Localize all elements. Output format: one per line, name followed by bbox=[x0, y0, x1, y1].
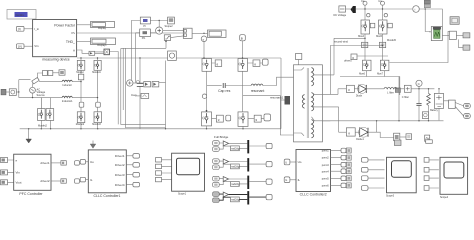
feedback wire vertical 2 bbox=[125, 49, 165, 128]
from tag T3b bbox=[226, 115, 231, 121]
wire CLLC1 a bbox=[86, 161, 89, 163]
svg-text:Uo: Uo bbox=[90, 160, 94, 164]
mosfet S4 (sec leg B low) bbox=[380, 60, 389, 70]
wire S3 S4 to bottom bus bbox=[354, 56, 388, 77]
tag CLLC1 o2 bbox=[133, 163, 140, 168]
goto tag CLLC2 out2 bbox=[341, 155, 346, 160]
svg-text:U: U bbox=[285, 160, 287, 164]
svg-text:Driver1: Driver1 bbox=[115, 154, 125, 158]
gate driver block row1 bbox=[346, 85, 354, 92]
gain row2 bbox=[223, 159, 228, 164]
CLLC Controller2 block bbox=[296, 149, 331, 197]
svg-text:driver2: driver2 bbox=[40, 179, 50, 183]
wire CLLC2 out2 bbox=[331, 157, 342, 159]
wire E to display F bbox=[192, 32, 207, 34]
voltage measurement H bbox=[201, 36, 207, 42]
svg-text:Power Factor: Power Factor bbox=[54, 23, 76, 27]
block below cap bbox=[422, 112, 428, 119]
meas block row2 b bbox=[406, 134, 412, 140]
secondary vertical bus A bbox=[333, 38, 335, 75]
mux bar row2 bbox=[247, 158, 249, 171]
breaker block bbox=[32, 77, 39, 83]
meas block right bbox=[449, 100, 456, 108]
load resistor RL bbox=[427, 89, 431, 121]
svg-text:[V]: [V] bbox=[18, 45, 22, 49]
goto block top bbox=[59, 70, 65, 75]
wire T3 bbox=[207, 119, 217, 129]
mini dark block top right bbox=[424, 0, 430, 7]
wire right leg tap to transformer bottom bbox=[243, 96, 294, 135]
wire battery to meas block bbox=[444, 101, 449, 103]
wire gate2 to diode2 bbox=[355, 131, 360, 133]
wire I_in to measuring device bbox=[24, 28, 33, 30]
wire bus to Q1 bbox=[80, 58, 82, 74]
right vertical wire bbox=[399, 77, 401, 96]
goto tag row2 bbox=[266, 162, 272, 167]
feedback wire to block A bbox=[131, 21, 140, 83]
wire row2 left bbox=[339, 131, 347, 133]
mux bar row4 bbox=[247, 191, 249, 204]
svg-text:pwm2: pwm2 bbox=[322, 156, 329, 160]
diode D2 bbox=[359, 127, 369, 137]
gate driver block row2 bbox=[346, 128, 355, 136]
tag PFC out2 bbox=[75, 179, 80, 183]
wire block to measure branch bbox=[16, 91, 19, 93]
input tag CLLC1 a bbox=[80, 160, 85, 165]
svg-text:Diode: Diode bbox=[356, 95, 363, 98]
from tag row2a bbox=[213, 159, 220, 164]
wire CLLC1 b bbox=[86, 179, 89, 181]
wire row1 bbox=[338, 88, 346, 90]
inductor L2 bbox=[62, 96, 73, 103]
svg-text:second wind: second wind bbox=[334, 40, 349, 43]
from tag Vin bbox=[17, 44, 25, 49]
battery block bbox=[434, 93, 443, 108]
wire row3 to mux bbox=[229, 179, 248, 184]
wire CLLC2 out4 bbox=[331, 170, 342, 172]
svg-text:CLLC Controller2: CLLC Controller2 bbox=[300, 192, 327, 196]
tag CLLC1 o1 bbox=[133, 154, 140, 159]
svg-text:C filter: C filter bbox=[402, 96, 409, 99]
goto tag CLLC2 out6 bbox=[341, 183, 346, 188]
from tag row1b bbox=[213, 147, 220, 152]
transformer secondary wires bbox=[322, 75, 338, 121]
wire CLLC2 out3 bbox=[331, 164, 342, 166]
gate block T1 bbox=[215, 60, 222, 67]
wire legA top bbox=[364, 5, 366, 20]
wire Q6 to bus bbox=[97, 123, 99, 129]
gain row4 bbox=[223, 192, 228, 197]
feedback wire to block B bbox=[136, 33, 140, 83]
mosfet S2 (sec leg B high) bbox=[379, 20, 388, 34]
wire pwm to block bbox=[442, 34, 449, 36]
mosfet Q1 (fast leg high A) bbox=[77, 60, 85, 70]
svg-text:Vout: Vout bbox=[16, 181, 22, 185]
tag CLLC1 o4 bbox=[133, 182, 140, 187]
scope1 bbox=[387, 157, 417, 193]
svg-text:IL: IL bbox=[90, 178, 93, 182]
from tag row4a bbox=[213, 192, 220, 197]
wire CLLC1 o1 bbox=[126, 155, 133, 157]
wire gate to diode bbox=[354, 88, 358, 90]
wire A output bbox=[77, 50, 89, 53]
wire source top to breaker bbox=[32, 83, 34, 87]
wire diode to inductor bbox=[367, 88, 384, 90]
wires to PFC controller bbox=[8, 160, 14, 182]
from tag in3 PFC bbox=[1, 180, 8, 185]
current tag on left leg bbox=[202, 94, 206, 98]
svg-text:Uo: Uo bbox=[298, 160, 302, 164]
wire CLLC2 out5 bbox=[331, 177, 342, 179]
wire mux out row3 bbox=[249, 181, 266, 183]
gate block S3 bbox=[351, 54, 357, 60]
ground under bus G2 bbox=[90, 141, 96, 149]
svg-text:Mos6: Mos6 bbox=[359, 73, 366, 76]
goto tag row4 bbox=[266, 195, 272, 200]
gain row3 bbox=[223, 177, 228, 182]
svg-text:B: B bbox=[241, 36, 243, 40]
terminator block out5 bbox=[346, 176, 351, 181]
wire mux out row1 bbox=[249, 145, 266, 147]
wire CLLC2 out6 bbox=[331, 184, 342, 186]
wire A1 to A2 bbox=[95, 52, 104, 53]
goto block PFC out1 bbox=[61, 161, 66, 165]
mid circles leg A bbox=[367, 14, 370, 17]
product block A2 bbox=[104, 49, 109, 55]
right dc bus vertical bbox=[280, 58, 282, 129]
gate block T4 bbox=[254, 115, 261, 122]
wire B to C bbox=[150, 32, 155, 34]
wire to bus tee bbox=[346, 8, 353, 10]
tag PFC out1 bbox=[75, 161, 80, 165]
mosfet Q3 (slow leg low A) bbox=[38, 109, 46, 121]
wire Y to tag1 bbox=[455, 103, 463, 106]
from tag row3a bbox=[213, 176, 220, 181]
goto tag row1 bbox=[266, 143, 272, 148]
from tag driver legA bbox=[362, 42, 368, 47]
svg-text:Scope2: Scope2 bbox=[164, 25, 173, 28]
diode D1 bbox=[357, 84, 366, 93]
svg-text:Im: Im bbox=[361, 0, 365, 3]
from tag in1 PFC bbox=[1, 158, 8, 163]
transformer TX1 bbox=[294, 65, 323, 142]
svg-text:rad2dg: rad2dg bbox=[231, 182, 240, 186]
goto tag CLLC2 out3 bbox=[341, 162, 346, 167]
svg-text:rad2dg: rad2dg bbox=[231, 198, 240, 202]
wire ground stub bbox=[28, 129, 30, 139]
wire to minis bbox=[456, 34, 463, 36]
svg-text:Cap res: Cap res bbox=[218, 89, 231, 93]
wire mux out row4 bbox=[249, 196, 266, 198]
wire bottom line bbox=[33, 97, 63, 99]
from tag row4b bbox=[213, 198, 220, 203]
measure block pair a bbox=[43, 71, 48, 76]
goto tag row3 bbox=[266, 179, 272, 184]
icon block bottom bbox=[425, 135, 430, 141]
top rail bbox=[411, 88, 434, 90]
wire diode2 right bbox=[369, 132, 394, 137]
terminator block out4 bbox=[346, 169, 351, 174]
wire THD to display2 bbox=[77, 40, 91, 42]
powergui block bbox=[7, 10, 36, 20]
inductor L1 bbox=[62, 80, 72, 87]
svg-text:Mosfet1: Mosfet1 bbox=[92, 71, 101, 74]
wire Q1 to mid bbox=[80, 80, 82, 112]
svg-text:pwm5: pwm5 bbox=[322, 176, 329, 180]
svg-text:I_in: I_in bbox=[34, 27, 39, 31]
out tag1 bbox=[464, 103, 471, 108]
wire row2 blocks bbox=[400, 136, 406, 138]
saturation block G bbox=[164, 35, 170, 41]
from tag I_in bbox=[17, 26, 25, 31]
wire Uo to CLLC2 bbox=[290, 161, 296, 163]
convert block row4 bbox=[231, 197, 240, 202]
mosfet S3 (sec leg A low) bbox=[363, 60, 372, 70]
svg-text:Mos4: Mos4 bbox=[358, 35, 365, 38]
wire inductor to fast leg mid bbox=[72, 81, 81, 83]
meas block row2 a bbox=[394, 133, 400, 141]
from tag IL bbox=[284, 177, 290, 183]
svg-text:Vin: Vin bbox=[34, 44, 39, 48]
wire meas to transformer bbox=[298, 60, 300, 65]
dc source block top bbox=[339, 6, 346, 12]
wire bus to Q2 bbox=[97, 58, 99, 112]
svg-text:THD_: THD_ bbox=[66, 40, 75, 44]
svg-text:Inductor: Inductor bbox=[63, 83, 73, 87]
mini gray block above scope1 bbox=[394, 140, 401, 146]
scope A input tags bbox=[156, 158, 162, 162]
wire sense to vertical bbox=[159, 82, 166, 84]
wire vm stub bbox=[418, 86, 420, 88]
wire row2 to mux bbox=[229, 162, 248, 167]
svg-text:Display1: Display1 bbox=[97, 44, 107, 47]
wire T2 leg bbox=[243, 58, 263, 112]
goto tag T2b bbox=[262, 59, 268, 65]
feedback sense blocks on wire bbox=[127, 80, 133, 86]
wire pair to goto bbox=[53, 72, 59, 74]
AC voltage source V1 bbox=[30, 87, 46, 97]
secondary top bus bbox=[356, 8, 412, 10]
wires scope2 bbox=[429, 160, 439, 188]
output capacitor Co bbox=[416, 89, 421, 121]
svg-text:Mos7: Mos7 bbox=[377, 73, 384, 76]
current measure label leg B bbox=[379, 0, 385, 5]
gate tag Q5 bbox=[79, 102, 84, 107]
terminator block out1 bbox=[346, 148, 351, 153]
svg-text:IL: IL bbox=[298, 178, 301, 182]
svg-text:pwm3: pwm3 bbox=[322, 163, 329, 167]
mini white block above scope2 bbox=[426, 140, 433, 144]
wire legA mid bbox=[334, 34, 365, 60]
wire junction dots bbox=[18, 8, 440, 129]
wire row1 tag-gain bbox=[219, 143, 230, 149]
svg-text:Inductor1: Inductor1 bbox=[62, 99, 73, 103]
mini block right 2 bbox=[463, 45, 470, 50]
gain row1 bbox=[223, 141, 228, 146]
sense block low bbox=[141, 93, 149, 98]
bottom rail bbox=[322, 120, 443, 122]
terminator block out2 bbox=[346, 155, 351, 160]
wire row1 to mux bbox=[229, 143, 248, 148]
svg-text:Mosfet2: Mosfet2 bbox=[76, 123, 85, 126]
wire CLLC1 o3 bbox=[126, 174, 133, 176]
terminator block out6 bbox=[346, 183, 351, 188]
wire Pv to mux bbox=[77, 32, 184, 34]
current sensor block bbox=[404, 85, 411, 92]
PWM generator block (green) bbox=[429, 27, 442, 41]
terminator block out3 bbox=[346, 162, 351, 167]
wire PFC out2 bbox=[51, 180, 61, 182]
wire battery stubs bbox=[438, 89, 440, 120]
svg-text:Im: Im bbox=[379, 0, 383, 3]
dc link capacitor C1 bbox=[131, 58, 143, 129]
svg-text:[I]: [I] bbox=[18, 27, 21, 31]
from tag row3b bbox=[213, 182, 220, 187]
goto tag CLLC2 out4 bbox=[341, 169, 346, 174]
PFC Controller block bbox=[14, 154, 51, 196]
wires scope A bbox=[162, 160, 172, 180]
svg-text:rad2dg: rad2dg bbox=[231, 165, 240, 169]
wire inductor to sense bbox=[397, 88, 404, 90]
wire T1 leg bbox=[207, 58, 216, 112]
svg-text:DC Voltage: DC Voltage bbox=[334, 14, 347, 17]
wire J down to bus bbox=[242, 41, 244, 58]
wire PowerFactor to display1 bbox=[77, 24, 91, 26]
svg-text:A: A bbox=[73, 49, 75, 53]
from tag Uo bbox=[284, 159, 290, 165]
gate block T3 bbox=[216, 115, 223, 122]
svg-text:Source: Source bbox=[37, 93, 46, 97]
out tag2 bbox=[464, 114, 471, 119]
wire legB top bbox=[382, 5, 384, 20]
feedback wire vertical 1 bbox=[121, 49, 166, 125]
mini block right 1 bbox=[463, 33, 470, 38]
transfer block B bbox=[140, 29, 151, 37]
resonant inductor Lr bbox=[251, 84, 265, 93]
svg-text:Full Bridge: Full Bridge bbox=[214, 135, 229, 139]
ground G1 bbox=[26, 139, 32, 143]
wires scope1 bbox=[368, 160, 385, 188]
svg-text:resonant: resonant bbox=[251, 89, 265, 93]
dark tag row1 bbox=[395, 88, 400, 93]
gate block T2 bbox=[253, 60, 260, 67]
mosfet T3 (H-bridge bottom-left) bbox=[202, 112, 212, 126]
scope mini top right 2 bbox=[450, 17, 459, 25]
scope A bbox=[172, 153, 205, 191]
wire tag to block bbox=[6, 91, 9, 93]
output wire right bbox=[390, 31, 450, 62]
goto tag J above bridge bbox=[240, 35, 246, 41]
secondary bottom bus bbox=[340, 76, 400, 78]
svg-text:Vin: Vin bbox=[16, 171, 21, 175]
gain sense1 bbox=[144, 82, 151, 87]
mosfet Q5 (fast leg low A) bbox=[77, 112, 85, 123]
wire circle right bbox=[419, 9, 443, 27]
mid circles leg B bbox=[384, 14, 387, 17]
dark node left of transformer bbox=[285, 96, 291, 105]
svg-text:Diode1: Diode1 bbox=[356, 138, 364, 141]
gain sense2 bbox=[152, 82, 159, 87]
svg-text:L filter: L filter bbox=[387, 92, 394, 95]
wire A to scope D bbox=[150, 20, 167, 22]
wire source bottom bbox=[32, 93, 34, 98]
wire PFC out1 bbox=[51, 162, 61, 164]
gate tag S2 bbox=[388, 23, 393, 28]
transfer block A bbox=[140, 17, 150, 24]
svg-text:Scope3: Scope3 bbox=[386, 195, 395, 198]
svg-text:PI: PI bbox=[143, 25, 146, 28]
secondary vertical bus B bbox=[330, 46, 338, 121]
wire row2 tag-gain bbox=[219, 161, 230, 167]
wire Lr to transformer top bbox=[263, 77, 294, 85]
wire H to top bus bbox=[203, 42, 205, 58]
svg-text:Contin.: Contin. bbox=[16, 13, 25, 17]
wire mux out row2 bbox=[249, 163, 266, 165]
mosfet Q2 (fast leg high B) bbox=[94, 60, 101, 70]
wire C to mux E bbox=[163, 30, 184, 32]
svg-text:pwm6: pwm6 bbox=[322, 184, 329, 188]
voltage measure circle top bbox=[416, 80, 422, 86]
from tag driver legB bbox=[379, 42, 385, 47]
svg-text:resonant1: resonant1 bbox=[270, 96, 284, 100]
wire mini2 bbox=[459, 39, 464, 47]
display1 Power Factor bbox=[91, 22, 115, 28]
wire breaker up to measure blocks bbox=[38, 73, 43, 78]
voltage measure block source bbox=[9, 89, 16, 96]
scope2 input tags bbox=[424, 158, 429, 163]
mosfet T4 (H-bridge bottom-right) bbox=[238, 112, 248, 127]
current measure circle top right bbox=[413, 6, 420, 13]
goto tag CLLC2 out1 bbox=[341, 148, 346, 153]
wire CLLC1 o2 bbox=[126, 164, 133, 166]
control block right bbox=[449, 31, 456, 39]
svg-text:Mos5: Mos5 bbox=[376, 35, 383, 38]
svg-text:driver1: driver1 bbox=[40, 161, 50, 165]
mux E bbox=[183, 28, 192, 38]
wire inductor2 to slow leg mid bbox=[72, 97, 97, 99]
wire sense bbox=[133, 82, 144, 84]
wire G to mux E bbox=[171, 36, 184, 38]
wire branch to pwm input bbox=[425, 9, 431, 32]
svg-text:Pv: Pv bbox=[71, 31, 75, 35]
input tag CLLC1 b bbox=[80, 177, 85, 182]
junction dot bbox=[203, 33, 204, 34]
svg-text:Mosfet5: Mosfet5 bbox=[387, 39, 397, 42]
from tag row1a bbox=[213, 141, 220, 146]
wire row4 tag-gain bbox=[219, 194, 230, 200]
svg-text:measuring device: measuring device bbox=[42, 58, 69, 62]
goto block PFC out2 bbox=[61, 179, 66, 183]
wire left leg taps bbox=[40, 98, 42, 109]
measure branch wires bbox=[19, 80, 33, 98]
wire row3 tag-gain bbox=[219, 179, 230, 185]
svg-text:Mosfet3: Mosfet3 bbox=[92, 123, 101, 126]
svg-text:Mosfet2: Mosfet2 bbox=[38, 125, 48, 128]
bus tee element bbox=[351, 6, 356, 13]
left vertical to bottom rail bbox=[398, 77, 400, 121]
scope D bbox=[168, 17, 175, 24]
wire legB mid bbox=[330, 34, 382, 60]
wire CLLC2 out1 bbox=[331, 150, 342, 152]
wire rail stub row2 bbox=[376, 121, 378, 132]
gate tag Q6 bbox=[96, 102, 101, 107]
wire Vin to measuring device bbox=[24, 45, 33, 47]
measure block pair b bbox=[48, 71, 53, 76]
gain block A1 bbox=[89, 51, 95, 55]
wires legs to bottom bus bbox=[41, 120, 50, 128]
svg-text:Scope1: Scope1 bbox=[178, 193, 187, 196]
top bus wire bbox=[77, 57, 281, 59]
